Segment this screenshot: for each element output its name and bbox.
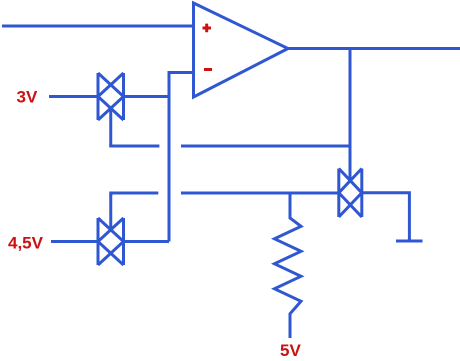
op-amp minus label [204, 68, 212, 71]
svg-text:3V: 3V [17, 88, 38, 107]
wire 3V to switch S1 [49, 95, 98, 98]
wire noninverting input [2, 25, 194, 28]
wire 4,5V to switch S2 [51, 240, 98, 243]
svg-text:4,5V: 4,5V [8, 234, 44, 253]
analog switch S2 [98, 218, 124, 265]
wire S3 output [362, 193, 410, 241]
wire control net B right segment [181, 192, 339, 195]
op-amp U1 [194, 3, 289, 97]
wire S1 to inverting node [124, 95, 170, 98]
op-amp plus label [203, 24, 212, 33]
wire output branch to switch S3 control [349, 49, 352, 182]
analog switch S3 [339, 169, 362, 218]
ground [396, 240, 423, 243]
analog switch S1 [98, 73, 124, 120]
resistor R1 [275, 193, 302, 338]
wire S1 control [109, 108, 112, 147]
svg-text:5V: 5V [280, 341, 301, 360]
wire control net B left segment [111, 193, 159, 196]
wire inverting input node [169, 73, 194, 242]
wire S2 to inverting node [124, 240, 170, 243]
wire control net A right segment [181, 145, 350, 148]
wire S2 control [109, 195, 112, 231]
wire output [288, 47, 460, 50]
wire control net A left segment [111, 145, 160, 147]
